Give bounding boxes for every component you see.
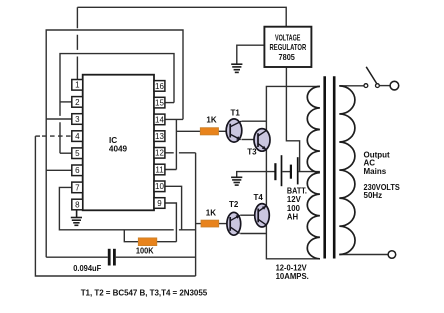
svg-text:16: 16 xyxy=(155,82,164,91)
svg-text:3: 3 xyxy=(75,115,80,124)
wire collector rail and primary top xyxy=(266,86,320,258)
svg-text:7805: 7805 xyxy=(279,53,296,62)
transistor Q2 T2 BC547 xyxy=(227,200,241,235)
pin 8 xyxy=(72,199,83,210)
svg-text:11: 11 xyxy=(155,165,164,174)
svg-text:6: 6 xyxy=(75,166,80,175)
pin 15 xyxy=(154,97,165,108)
svg-text:VOLTAGE: VOLTAGE xyxy=(275,33,301,42)
pin 7 xyxy=(72,182,83,193)
wire 1K top to T1 base xyxy=(219,130,227,132)
wire T1 emitter to T3 base xyxy=(242,139,255,141)
wire capacitor left xyxy=(46,256,108,258)
wire pin 3 xyxy=(46,118,72,120)
transistor Q4 T4 2N3055 xyxy=(254,193,270,227)
svg-text:50Hz: 50Hz xyxy=(364,191,383,200)
output terminal bottom xyxy=(388,251,396,259)
svg-text:Mains: Mains xyxy=(364,167,387,176)
pin 14 xyxy=(154,114,165,125)
pin 2 xyxy=(72,97,83,108)
wire pin 6 xyxy=(46,169,72,171)
pin 6 xyxy=(72,165,83,176)
transformer TR1 core xyxy=(323,76,326,258)
resistor R2 1K (to T2) xyxy=(201,220,219,227)
svg-text:9: 9 xyxy=(157,199,162,208)
pin 4 xyxy=(72,131,83,142)
svg-text:100K: 100K xyxy=(136,246,154,255)
pin 12 xyxy=(154,148,165,159)
transformer TR1 secondary winding xyxy=(339,86,355,255)
svg-text:7: 7 xyxy=(75,183,80,192)
wire battery left to rail and ground xyxy=(237,172,276,178)
wire secondary top to switch xyxy=(339,85,364,87)
svg-text:REGULATOR: REGULATOR xyxy=(270,43,307,52)
svg-text:5: 5 xyxy=(75,149,80,158)
wire battery mid stub xyxy=(282,171,290,173)
svg-text:12V: 12V xyxy=(287,195,302,204)
resistor R1 1K (to T1) xyxy=(200,128,218,135)
svg-text:4: 4 xyxy=(75,132,80,141)
svg-text:T1, T2 = BC547 B, T3,T4 = 2N30: T1, T2 = BC547 B, T3,T4 = 2N3055 xyxy=(81,289,208,298)
pin 10 xyxy=(154,181,165,192)
wire pin 10 drop xyxy=(165,186,182,230)
wire 100K right xyxy=(157,241,177,243)
pin 13 xyxy=(154,131,165,142)
pin 1 xyxy=(72,80,83,91)
svg-text:8: 8 xyxy=(75,200,80,209)
wire regulator ground arm xyxy=(237,45,265,64)
svg-text:AH: AH xyxy=(287,213,299,222)
wire capacitor right xyxy=(116,256,196,258)
svg-text:T3: T3 xyxy=(247,148,257,157)
output terminal top xyxy=(390,81,399,90)
switch S1 xyxy=(364,67,379,88)
svg-text:12-0-12V: 12-0-12V xyxy=(276,263,308,272)
wire regulator output elbow to battery plus xyxy=(286,67,299,172)
IC U1 body 4049 xyxy=(83,75,154,211)
wire switch to output terminal xyxy=(380,85,391,87)
wire pin 5 xyxy=(60,152,72,154)
wire vertical into pin 1 (with crossing gaps) xyxy=(76,7,78,79)
svg-text:4049: 4049 xyxy=(109,145,128,154)
pin 3 xyxy=(72,114,83,125)
wire pin 2 xyxy=(60,101,72,103)
capacitor C1 0.094uF xyxy=(109,249,114,266)
resistor R3 100K xyxy=(138,238,157,246)
svg-text:10AMPS.: 10AMPS. xyxy=(276,272,309,281)
wire pin 12 (crossing gap) xyxy=(165,152,196,154)
ground left of battery xyxy=(231,177,242,185)
wire pin14-pin11 vertical with 1K tap xyxy=(165,119,201,169)
svg-text:100: 100 xyxy=(287,204,301,213)
voltage regulator U2 7805 xyxy=(264,27,311,67)
svg-text:0.094uF: 0.094uF xyxy=(73,264,101,273)
wire pin 7 L-shape to oscillator net (crossing gap at pin9 drop) xyxy=(59,187,195,229)
pin 9 xyxy=(154,198,165,209)
svg-text:13: 13 xyxy=(155,132,164,141)
svg-text:2: 2 xyxy=(75,98,80,107)
wire 1K bottom to T2 base xyxy=(196,223,227,225)
wire pin 15 xyxy=(165,102,174,104)
transistor Q3 T3 2N3055 xyxy=(247,129,270,157)
pin 16 xyxy=(154,81,165,92)
transformer TR1 primary winding xyxy=(307,86,320,258)
wire pin 9 drop to 100K xyxy=(165,203,177,242)
svg-text:T2: T2 xyxy=(229,200,239,209)
wire T1 collector to rail xyxy=(242,120,267,122)
wire pin4 corner down to bottom border xyxy=(35,136,195,276)
wire inner loop pin15 to vertical B xyxy=(60,54,174,154)
wire 100K left riser xyxy=(124,230,138,242)
wire pin 14 xyxy=(165,118,183,120)
svg-text:1: 1 xyxy=(75,81,80,90)
wire top supply from pin1 area to regulator xyxy=(77,7,286,26)
transistor Q1 T1 BC547 xyxy=(226,109,242,143)
svg-text:12: 12 xyxy=(155,149,164,158)
ground left of regulator xyxy=(231,64,242,72)
svg-text:T1: T1 xyxy=(231,109,241,118)
wire T2 collector to rail xyxy=(240,233,266,235)
svg-text:1K: 1K xyxy=(206,116,216,125)
svg-text:T4: T4 xyxy=(254,193,264,202)
svg-text:10: 10 xyxy=(155,182,164,191)
wire battery right to center tap xyxy=(299,171,320,173)
svg-text:15: 15 xyxy=(155,99,164,108)
wire pin 4 dashed xyxy=(35,135,40,137)
svg-text:BATT.: BATT. xyxy=(287,186,307,195)
wire outer loop pin14 to left rail xyxy=(46,30,183,257)
ground below pin 8 xyxy=(71,210,82,226)
wire secondary bottom to output terminal xyxy=(339,254,388,256)
wire vertical pin12 net down to bottom xyxy=(195,153,197,276)
battery B1 12V xyxy=(275,155,297,186)
pin 11 xyxy=(154,164,165,175)
svg-text:1K: 1K xyxy=(206,208,216,217)
pin 5 xyxy=(72,148,83,159)
svg-text:14: 14 xyxy=(155,115,164,124)
wire T2 emitter to T4 base xyxy=(240,214,255,216)
